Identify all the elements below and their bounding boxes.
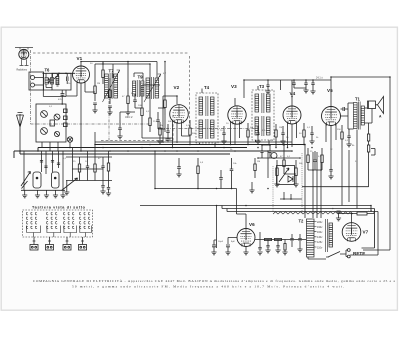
tube V1 [73, 66, 90, 83]
capacitor C31 [265, 246, 270, 253]
junction dots detector [283, 198, 292, 200]
dashed enclosure RF section [33, 53, 189, 141]
resistor R32 [367, 145, 375, 187]
plug RETE [347, 249, 350, 258]
wire V1 pins [66, 83, 95, 152]
wire speaker return [364, 101, 372, 134]
resistor R31 [367, 134, 369, 145]
ground C34 [297, 247, 302, 252]
wire mesh rails [95, 62, 173, 139]
resistor R29 [275, 238, 282, 240]
svg-text:2M: 2M [97, 83, 100, 85]
capacitor C46 [341, 107, 349, 111]
wire detector bottom [280, 192, 302, 199]
transformer T6 [45, 78, 54, 85]
capacitor C16 [176, 158, 181, 177]
speaker A [368, 97, 384, 114]
wire bus risers [95, 132, 288, 148]
shield zigzag [273, 212, 353, 214]
wire bus 4 [20, 151, 230, 154]
svg-text:1,5A: 1,5A [368, 210, 373, 213]
capacitor C4 [117, 120, 122, 139]
padder capacitor C35 [40, 161, 43, 163]
resistor R17 [283, 152, 285, 174]
svg-text:V7: V7 [363, 230, 369, 235]
wire connector OD [33, 237, 36, 245]
wire T3 drops [255, 86, 269, 145]
electrolytic C23 [211, 240, 216, 255]
resistor R10 [78, 164, 80, 172]
svg-text:V3: V3 [231, 84, 237, 89]
capacitor C14 [100, 186, 105, 194]
wire bus 0 [95, 141, 292, 143]
wire bottom bus 3 [227, 209, 378, 256]
resistor R12 [107, 163, 109, 171]
svg-text:+: + [332, 207, 334, 211]
resistor R24 [247, 123, 249, 145]
wire AF feed line [302, 186, 369, 188]
diode D1 [288, 176, 293, 182]
wire avc rails [66, 145, 112, 181]
keyboard contacts [26, 213, 90, 229]
ratio detector box [277, 166, 295, 185]
capacitor C25 [165, 124, 170, 142]
tube V4 [283, 106, 301, 124]
resistor R5 [141, 100, 143, 122]
ground avc 1 [64, 192, 69, 195]
capacitor C7 [265, 83, 270, 94]
wire mains [308, 250, 348, 259]
electrolytic C24 [225, 245, 230, 255]
svg-text:190v: 190v [317, 226, 323, 229]
tube V3 [228, 106, 246, 124]
wire V6 bus [214, 239, 217, 241]
wire V6 RC rail [255, 232, 306, 247]
resistor R27 [341, 125, 343, 148]
component value labels [49, 63, 373, 243]
tuning gang C8 [41, 111, 48, 118]
resistor R23 [189, 120, 191, 145]
tuning unit box [36, 104, 66, 142]
resistor R4 [125, 88, 130, 115]
svg-text:V2: V2 [174, 85, 180, 90]
ground osc 5 [60, 195, 65, 198]
capacitor C15 [106, 188, 111, 196]
svg-text:V6: V6 [249, 222, 255, 227]
wire tuning box to bus [42, 142, 70, 151]
capacitor C18 [219, 170, 223, 189]
wire top HT bus [244, 77, 390, 107]
svg-text:1M: 1M [160, 125, 163, 127]
tuning gang C9 [54, 114, 60, 120]
wire V6 connections [228, 214, 246, 252]
transformer T2 [307, 219, 333, 257]
wire bus 1 [95, 144, 305, 146]
ground R15 [249, 182, 254, 193]
resistor R30 [282, 244, 287, 255]
svg-text:T9: T9 [138, 75, 144, 80]
wire connector MOD [66, 237, 69, 245]
svg-text:24,1 ±: 24,1 ± [316, 77, 323, 80]
wire V2 pins [163, 96, 190, 143]
resistor R19 [307, 148, 309, 170]
svg-text:T7: T7 [109, 69, 115, 74]
padder capacitor C37 [51, 161, 54, 163]
transformer T9 [133, 80, 144, 97]
resistor R1 [94, 80, 96, 101]
trimmer can 2 [52, 172, 60, 188]
connector OD [30, 245, 38, 251]
fuse resistor R21 [352, 212, 375, 215]
capacitor C27 [255, 126, 260, 144]
tube V5 [322, 107, 341, 126]
transformer T8 [144, 74, 161, 102]
capacitor C2 [107, 78, 112, 115]
svg-text:T6: T6 [45, 68, 51, 73]
ground C54 [257, 252, 262, 255]
capacitor C28 [280, 126, 285, 144]
resistor R26 [303, 123, 305, 145]
wire AF loop [155, 151, 268, 248]
terminal a [64, 109, 68, 113]
capacitor C47 [328, 164, 333, 179]
wire HT to V7 [373, 212, 375, 214]
svg-text:Tastiera vista di sotto: Tastiera vista di sotto [32, 205, 86, 209]
connector MOD [63, 245, 71, 251]
svg-text:160v: 160v [317, 231, 323, 234]
capacitor C33 [290, 239, 293, 241]
keyboard outline [23, 210, 93, 237]
filter cap C22 [336, 211, 341, 221]
IF transformer T4 [196, 93, 218, 143]
ground osc 2 [35, 195, 40, 198]
wire avc grounds [67, 181, 109, 193]
wire bus 2 [38, 148, 247, 152]
wire connector OC [81, 237, 84, 245]
wire tuned box bottom [43, 90, 66, 104]
switch arrow S2 [21, 172, 31, 187]
ground V6 [243, 252, 248, 255]
resistor R25 [275, 124, 277, 148]
IF transformer T3 [252, 90, 274, 140]
svg-text:T2: T2 [299, 219, 305, 224]
capacitor C1 [92, 103, 97, 113]
wire C54 branch [258, 240, 261, 252]
wire detector rails [258, 143, 300, 174]
svg-text:16µF: 16µF [218, 241, 224, 243]
wire HT rail right [363, 77, 390, 250]
ground osc 4 [53, 195, 58, 198]
tube V6 [237, 229, 255, 247]
svg-text:1M: 1M [257, 161, 260, 163]
wire T6 leads [43, 73, 76, 90]
svg-text:220v: 220v [317, 221, 323, 224]
switch arrow S3 [22, 181, 28, 189]
capacitor C40 [310, 80, 315, 94]
capacitor C29 [309, 126, 314, 144]
wire bottom bus 1 [140, 206, 371, 213]
tuning gang C10 [41, 128, 48, 135]
capacitor C17 [230, 158, 234, 189]
resistor R7 [164, 92, 166, 115]
svg-text:UFC 2: UFC 2 [125, 115, 133, 119]
wire bottom bus 2 [222, 206, 375, 249]
svg-text:V5: V5 [327, 88, 333, 93]
shield boundary dotted [272, 166, 274, 212]
resistor R2 [102, 62, 104, 85]
capacitor C30 [346, 129, 351, 147]
resistor R22 [157, 122, 162, 144]
wire T9 top [134, 73, 143, 81]
capacitor C12 [86, 166, 89, 168]
antenna [17, 113, 24, 152]
connector FONO [46, 245, 54, 251]
resistor R18 [293, 160, 298, 187]
wire osc ground rail [21, 190, 65, 195]
padder capacitor C36 [44, 166, 47, 168]
wire avc verticals [73, 157, 109, 181]
wire V4 pins [288, 80, 297, 147]
trimmer can 1 [33, 172, 41, 188]
connector OC [79, 245, 87, 251]
dash-dot internal boundary [31, 95, 259, 141]
wire osc verticals [24, 151, 63, 190]
wire T4 connections [199, 89, 215, 148]
mains switch [326, 252, 340, 258]
svg-text:1M: 1M [279, 127, 282, 129]
ground osc 3 [44, 195, 49, 198]
capacitor C3 [133, 94, 137, 108]
transformer T7 [103, 70, 120, 102]
svg-text:T1: T1 [355, 97, 361, 102]
capacitor C34 [298, 239, 301, 241]
dash-dot chassis left [30, 50, 32, 124]
capacitor C20 [268, 145, 271, 158]
antenna tuned box [52, 73, 71, 90]
resistor R11 [94, 164, 96, 172]
wire V7 top [339, 214, 352, 223]
capacitor C5 [156, 112, 160, 129]
switch arrow S1 [62, 178, 78, 191]
tube V2 [170, 105, 189, 124]
keyboard key frames [27, 226, 92, 238]
diode envelope [271, 153, 277, 159]
wire T1 to V5 [341, 103, 358, 209]
padder capacitor C38 [57, 163, 60, 165]
dashed IF right edge [189, 56, 191, 127]
svg-text:T3: T3 [259, 84, 265, 89]
svg-text:T4: T4 [204, 85, 210, 90]
tube V8 [19, 49, 29, 59]
tuning gang C11 [54, 131, 59, 136]
svg-text:V1: V1 [77, 56, 83, 61]
resistor R28 [265, 238, 272, 240]
terminal b [64, 116, 68, 120]
wire supply drops [342, 148, 349, 206]
svg-text:Radiofono: Radiofono [17, 70, 28, 72]
resistor R15 [254, 158, 256, 178]
svg-text:8µF: 8µF [231, 241, 235, 243]
wire V3 pins [231, 98, 240, 145]
capacitor C26 [221, 126, 226, 144]
wire V5 pins [326, 124, 336, 165]
resistor R16 [274, 160, 279, 187]
capacitor C21 [313, 151, 317, 170]
phono jack box [29, 72, 44, 90]
capacitor C6 [292, 80, 306, 88]
wire connector FONO [48, 237, 51, 245]
wire V1 anode [81, 62, 157, 79]
wire bus 3 [14, 151, 292, 158]
svg-text:110v: 110v [317, 246, 323, 249]
transformer T1 [354, 102, 365, 130]
dial lamp [67, 137, 72, 142]
padder trimmers [50, 120, 55, 126]
terminal c [64, 123, 68, 127]
resistor R6 [149, 110, 151, 132]
capacitor C32 [275, 246, 280, 253]
wire to T2 [305, 145, 322, 219]
capacitor C39 [303, 80, 308, 93]
ground osc 1 [22, 195, 27, 198]
svg-text:140v: 140v [317, 236, 323, 239]
wire T2 taps [314, 222, 317, 248]
tube V7 [342, 223, 361, 242]
svg-text:V4: V4 [290, 91, 296, 96]
capacitor C13 [101, 166, 104, 168]
resistor R14 [197, 158, 199, 189]
wire top-left feed [15, 48, 33, 66]
resistor R3 [109, 84, 111, 104]
shield boundary dotted 2 [301, 153, 303, 213]
svg-text:125v: 125v [317, 241, 323, 244]
resistor R20 [321, 148, 323, 170]
capacitor C19 [260, 145, 263, 158]
